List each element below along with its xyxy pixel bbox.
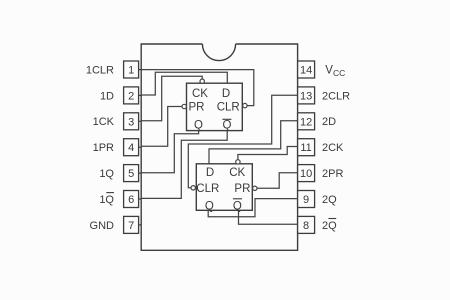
svg-text:2D: 2D <box>322 116 336 128</box>
svg-text:CK: CK <box>192 88 208 100</box>
wire 2PR: U1B PR bubble to pin10 <box>257 173 298 189</box>
svg-text:1Q: 1Q <box>99 194 114 206</box>
svg-text:Q: Q <box>205 200 214 212</box>
svg-text:6: 6 <box>128 194 134 206</box>
pin 9 box <box>298 191 315 208</box>
svg-text:PR: PR <box>189 101 205 113</box>
svg-text:D: D <box>206 167 214 179</box>
svg-text:Q: Q <box>194 119 203 131</box>
U1B CLR inversion bubble <box>191 186 195 190</box>
label 2Qbar (pin 8) <box>322 219 337 232</box>
svg-text:1PR: 1PR <box>93 142 114 154</box>
svg-text:1CK: 1CK <box>93 116 115 128</box>
svg-text:GND: GND <box>90 220 115 232</box>
U1B CK inversion bubble <box>236 160 240 164</box>
U1B PR inversion bubble <box>253 186 257 190</box>
svg-text:D: D <box>222 88 230 100</box>
pin 14 box <box>298 61 315 78</box>
svg-text:8: 8 <box>303 220 309 232</box>
U1A CK inversion bubble <box>200 79 204 83</box>
svg-text:1D: 1D <box>100 90 114 102</box>
pin 3 box <box>124 113 142 130</box>
svg-text:12: 12 <box>300 116 312 128</box>
svg-text:CLR: CLR <box>217 101 240 113</box>
svg-text:5: 5 <box>128 168 134 180</box>
U1B Qbar label <box>233 199 242 213</box>
svg-text:14: 14 <box>300 65 312 77</box>
pin 12 box <box>298 113 315 130</box>
wire 1Q: U1A Q output to pin5 <box>141 131 198 173</box>
wire 1CK: pin3 to U1A CK bubble <box>141 76 202 121</box>
U1A PR inversion bubble <box>182 104 186 108</box>
U1A Qbar label <box>222 119 231 131</box>
label 1Qbar (pin 6) <box>99 193 114 206</box>
pin 10 box <box>298 165 315 182</box>
flip-flop U1A box <box>187 83 243 130</box>
svg-text:4: 4 <box>128 142 134 154</box>
label VCC (pin 14) <box>325 64 345 78</box>
pin 2 box <box>124 87 142 104</box>
svg-text:3: 3 <box>128 116 134 128</box>
svg-text:10: 10 <box>300 168 312 180</box>
svg-text:2Q: 2Q <box>322 220 337 232</box>
svg-text:Q: Q <box>223 119 232 131</box>
svg-text:CLR: CLR <box>196 183 219 195</box>
pin 7 box <box>124 216 142 233</box>
wire 1Qbar: U1A Qbar output to pin6 <box>141 131 227 199</box>
flip-flop U1B box <box>196 164 252 211</box>
pin 13 box <box>298 87 315 104</box>
pin 8 box <box>298 216 315 233</box>
pin 4 box <box>124 139 142 156</box>
svg-text:13: 13 <box>300 90 312 102</box>
svg-text:2Q: 2Q <box>322 194 337 206</box>
svg-text:2PR: 2PR <box>322 168 343 180</box>
wire 2Qbar: U1B Qbar output to pin8 <box>239 210 298 224</box>
svg-text:PR: PR <box>234 183 250 195</box>
svg-text:9: 9 <box>303 194 309 206</box>
pin 11 box <box>298 139 315 156</box>
svg-text:11: 11 <box>300 142 311 154</box>
svg-text:2CK: 2CK <box>322 142 344 154</box>
wire 2D: pin12 to U1B D input <box>209 121 298 164</box>
wire 1PR: pin4 to U1A PR bubble <box>141 107 182 147</box>
svg-text:1Q: 1Q <box>99 168 114 180</box>
wire 2CK: pin11 to U1B CK bubble <box>238 147 298 160</box>
wire 1CLR: pin1 to U1A CLR bubble <box>141 70 254 106</box>
IC package outline U1 <box>141 44 297 250</box>
pin 5 box <box>124 165 142 182</box>
svg-text:Q: Q <box>233 200 242 212</box>
wire 2CLR: pin13 to U1B CLR bubble <box>188 95 297 188</box>
wire 2Q: U1B Q output to pin9 <box>208 199 297 217</box>
pin 6 box <box>124 191 142 208</box>
svg-text:7: 7 <box>128 220 134 232</box>
svg-text:CK: CK <box>229 167 245 179</box>
svg-text:2CLR: 2CLR <box>322 90 350 102</box>
svg-text:2: 2 <box>128 90 134 102</box>
pin 1 box <box>124 61 142 78</box>
svg-text:1: 1 <box>128 65 134 77</box>
wire 1D: pin2 to U1A D input <box>141 72 227 95</box>
U1A CLR inversion bubble <box>243 103 247 107</box>
svg-text:1CLR: 1CLR <box>86 64 114 76</box>
notch (pin-1 index semicircle) <box>202 44 235 61</box>
